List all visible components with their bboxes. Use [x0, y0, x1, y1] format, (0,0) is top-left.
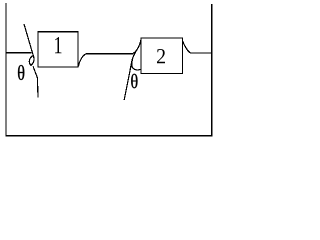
string 1 lower segment — [33, 66, 38, 97]
angle label theta 1 — [18, 65, 24, 80]
water surface left segment — [6, 52, 31, 54]
angle label theta 2 — [131, 74, 137, 88]
string 1 upper segment — [24, 24, 34, 58]
container left wall — [5, 3, 7, 136]
meniscus right of block 1 — [78, 54, 86, 67]
label 2 — [157, 49, 165, 63]
meniscus left of block 2 — [132, 40, 141, 54]
arrowhead loop on string 1 — [29, 56, 34, 65]
block 1 rectangle — [38, 32, 78, 67]
water surface middle segment — [86, 53, 133, 55]
container bottom — [5, 135, 212, 137]
label 1 — [55, 37, 62, 53]
meniscus right of block 2 — [183, 41, 190, 52]
string 2 (bends at surface) — [124, 48, 138, 100]
block 2 rectangle — [141, 38, 183, 74]
water surface right segment — [190, 52, 212, 54]
arrowhead hook on string 2 — [132, 60, 141, 70]
container right wall — [211, 4, 213, 136]
